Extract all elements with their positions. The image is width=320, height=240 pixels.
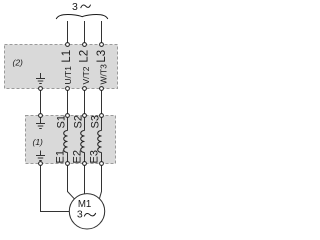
- svg-text:(2): (2): [13, 58, 24, 68]
- svg-text:S3: S3: [90, 115, 102, 128]
- svg-text:S1: S1: [56, 115, 68, 128]
- svg-text:L1: L1: [61, 50, 73, 63]
- svg-text:E2: E2: [71, 150, 83, 163]
- svg-text:3: 3: [72, 1, 78, 13]
- svg-text:V/T2: V/T2: [81, 66, 91, 84]
- svg-text:W/T3: W/T3: [99, 64, 109, 85]
- svg-text:E1: E1: [54, 150, 66, 163]
- svg-text:3: 3: [77, 209, 83, 221]
- svg-text:L2: L2: [79, 50, 91, 63]
- svg-text:U/T1: U/T1: [63, 66, 73, 85]
- svg-text:S2: S2: [73, 115, 85, 128]
- svg-text:L3: L3: [96, 50, 108, 63]
- svg-text:E3: E3: [88, 150, 100, 163]
- svg-text:(1): (1): [33, 137, 44, 147]
